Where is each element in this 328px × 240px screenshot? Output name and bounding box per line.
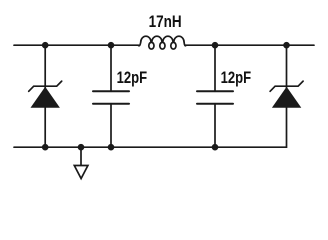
svg-text:17nH: 17nH (149, 13, 182, 31)
svg-text:12pF: 12pF (117, 69, 148, 87)
svg-text:12pF: 12pF (221, 69, 252, 87)
